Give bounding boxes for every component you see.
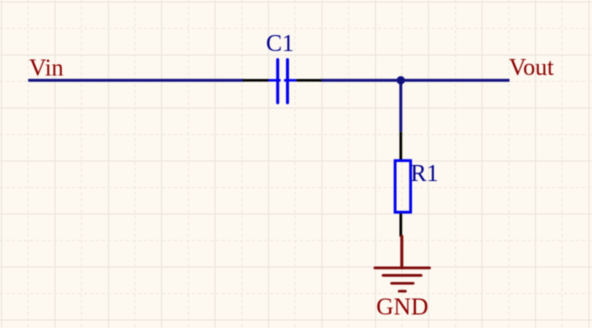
capacitor C1 pin 1 (black) — [243, 79, 269, 82]
capacitor C1 pin 2 (black) — [296, 79, 321, 82]
svg-text:Vout: Vout — [509, 55, 554, 81]
ground bar 2 — [383, 274, 421, 277]
wire: C1 right pin to Vout — [321, 79, 510, 82]
resistor R1 pin 2 (black) — [399, 214, 402, 237]
ground symbol — [375, 236, 430, 291]
capacitor C1 symbol (blue plates and leads) — [268, 60, 296, 103]
ground bar 3 — [392, 282, 414, 285]
ground stem — [400, 236, 403, 268]
resistor R1 pin 1 (black) — [399, 132, 402, 160]
svg-text:R1: R1 — [411, 161, 439, 187]
resistor R1 body — [395, 161, 411, 213]
node: junction at R1 branch — [397, 76, 405, 84]
wire: junction down to R1 — [399, 80, 402, 132]
wire: Vin to C1 left pin — [28, 79, 243, 82]
svg-text:C1: C1 — [266, 31, 294, 57]
svg-text:GND: GND — [376, 294, 428, 320]
ground bar 4 — [399, 290, 405, 293]
ground bar 1 — [375, 266, 430, 269]
svg-text:Vin: Vin — [29, 56, 64, 82]
